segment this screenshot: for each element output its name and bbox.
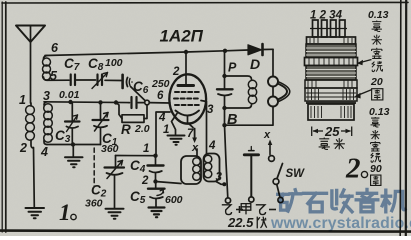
glyph haomi horizontal under 25 — [319, 138, 330, 150]
node C1 top — [98, 100, 102, 104]
svg-text:600: 600 — [165, 194, 183, 206]
wire C2 row to node 1 — [116, 155, 156, 157]
svg-text:P: P — [228, 61, 237, 75]
coilform band 3 — [305, 80, 357, 88]
label yi- terminal — [256, 205, 266, 215]
svg-text:B: B — [227, 112, 237, 128]
svg-text:1: 1 — [59, 200, 71, 225]
tube U1 envelope — [169, 74, 206, 123]
svg-text:3: 3 — [216, 172, 223, 184]
tube pin4 lead — [156, 112, 170, 156]
node tank drop — [223, 49, 227, 53]
wire phones bottom to B node — [225, 107, 274, 126]
svg-text:1 2 34: 1 2 34 — [310, 10, 343, 22]
svg-text:3: 3 — [207, 104, 214, 116]
svg-text:4: 4 — [40, 145, 48, 159]
capacitor grid cap — [132, 97, 137, 108]
ground under tube — [168, 136, 185, 145]
node 1 — [153, 154, 157, 158]
capacitor C7 — [71, 75, 75, 86]
coilform winding band 1 — [306, 44, 356, 58]
svg-text:250: 250 — [151, 78, 170, 90]
coil L3 coupling winding (6-5) — [43, 56, 51, 81]
label yi+ terminal — [222, 205, 232, 215]
coilform top flange — [307, 37, 356, 44]
svg-text:20: 20 — [370, 76, 383, 88]
capacitor C4 — [148, 156, 164, 182]
node tube anode drop — [184, 50, 188, 54]
dimension 25 — [312, 127, 352, 137]
svg-text:100: 100 — [105, 57, 123, 69]
wire tank main line — [224, 51, 226, 89]
glyph mi col1 — [372, 35, 382, 45]
svg-text:3: 3 — [43, 89, 50, 103]
wire to ground — [72, 145, 74, 157]
wire transformer sec bottom to battery line — [216, 182, 224, 185]
svg-text:360: 360 — [101, 143, 119, 155]
watermark shi — [303, 193, 326, 211]
wire coil5 to C7 — [47, 79, 69, 81]
terminal A — [249, 197, 254, 202]
arrow to winding2 — [355, 90, 373, 99]
glyph hao col1 — [372, 21, 382, 32]
svg-text:0.01: 0.01 — [59, 89, 80, 101]
svg-text:25: 25 — [324, 124, 340, 139]
svg-text:2: 2 — [19, 141, 27, 155]
svg-text:www.crystalradio.cn: www.crystalradio.cn — [270, 215, 411, 232]
label 22,5 v — [227, 215, 254, 230]
terminal B+ — [225, 198, 230, 203]
label 0,13 col2 — [369, 106, 390, 118]
svg-text:2: 2 — [141, 175, 149, 187]
coilform band 4 — [305, 88, 357, 101]
transformer T1 primary box — [181, 156, 201, 184]
svg-text:0.13: 0.13 — [369, 106, 390, 118]
fig label circles — [71, 171, 368, 219]
wire bottom return row — [47, 144, 101, 146]
capacitor C5 — [148, 182, 165, 207]
node transformer join — [222, 182, 226, 186]
battery A cell — [244, 147, 258, 198]
watermark shou — [332, 190, 352, 212]
resistor R — [116, 103, 147, 123]
tube pin3 lead — [201, 101, 207, 154]
svg-text:SW: SW — [286, 168, 306, 180]
coil L2 tuning winding (3-4) — [44, 102, 53, 145]
wire transformer primary top lead — [196, 149, 198, 156]
coilform ridge — [305, 58, 358, 66]
glyph quan col2 — [371, 175, 381, 185]
switch SW — [268, 140, 283, 198]
capacitor C1 variable — [93, 102, 109, 144]
glyph hao col2 — [371, 117, 380, 127]
svg-text:2: 2 — [345, 153, 361, 185]
wire diode to phones — [272, 49, 274, 76]
glyph fu volts — [257, 217, 266, 229]
svg-text:1: 1 — [163, 124, 169, 136]
node grid terminal — [145, 100, 150, 105]
wire top rail — [45, 50, 248, 56]
label jia terminal — [241, 204, 251, 215]
svg-text:R: R — [121, 122, 131, 137]
watermark yin — [356, 189, 378, 211]
tube pin1 lead — [172, 114, 178, 135]
svg-text:90: 90 — [370, 163, 382, 175]
svg-text:7: 7 — [187, 128, 194, 140]
glyph rao col2 — [371, 153, 381, 162]
arrow to winding1 — [357, 60, 372, 66]
glyph mi2 col1 — [372, 48, 382, 59]
wire grid node to tube pin6 — [149, 102, 170, 104]
svg-text:360: 360 — [85, 198, 103, 210]
watermark kuang — [278, 189, 405, 211]
wire gridcap to node — [138, 102, 145, 104]
capacitor C2 variable — [105, 156, 125, 209]
svg-text:1: 1 — [19, 93, 26, 107]
headphones — [268, 77, 290, 107]
ground under C2 — [106, 209, 124, 219]
svg-text:x: x — [191, 142, 199, 154]
wire antenna coil to ground — [33, 148, 36, 208]
wire C7 to C8 — [77, 79, 96, 81]
ground under C3 — [65, 157, 83, 167]
wire C6 to grid node — [131, 87, 146, 102]
node 2 — [153, 179, 157, 183]
node B — [222, 106, 226, 110]
svg-text:D: D — [250, 56, 260, 72]
node C3 top — [68, 100, 72, 104]
ground under C5 — [149, 208, 165, 218]
svg-text:5: 5 — [50, 69, 58, 83]
svg-text:22.5: 22.5 — [227, 215, 254, 230]
svg-text:2.0: 2.0 — [134, 123, 150, 135]
svg-text:2: 2 — [172, 66, 180, 78]
capacitor C3 (trimmer) — [65, 103, 80, 145]
svg-text:1: 1 — [143, 143, 149, 155]
watermark ji — [382, 190, 405, 212]
capacitor C6 — [123, 75, 133, 88]
ground under antenna coil — [26, 208, 45, 218]
tube filament — [176, 111, 200, 116]
coilform dark line — [306, 101, 356, 104]
label 0,13 col1 — [368, 9, 389, 21]
tube anode lead pin2 — [185, 52, 187, 84]
glyph mi col2 — [371, 130, 380, 139]
coilform bottom box — [308, 104, 354, 120]
node ground branch — [71, 142, 75, 146]
transformer T1 secondary box — [204, 154, 220, 182]
coil P winding — [225, 76, 257, 108]
diode D — [248, 44, 273, 55]
svg-text:4: 4 — [158, 112, 166, 124]
tube anode plate — [178, 84, 194, 87]
label 90 col2 — [370, 163, 382, 175]
antenna — [16, 26, 45, 104]
gang dashed link C1-C2 — [93, 148, 95, 186]
svg-text:0.13: 0.13 — [368, 9, 389, 21]
svg-text:6: 6 — [51, 41, 59, 55]
coilform winding band 2 — [306, 66, 356, 81]
svg-text:4: 4 — [208, 140, 216, 152]
svg-text:1А2П: 1А2П — [160, 27, 204, 46]
wire AVC row — [44, 101, 130, 104]
wire C8 to C6 — [105, 79, 121, 81]
wire B line down — [225, 125, 228, 198]
capacitor C8 (trimmer) — [92, 73, 108, 89]
glyph quan col1 — [372, 89, 383, 100]
capacitor tank cap — [217, 89, 233, 95]
coilform pins — [310, 20, 347, 37]
terminal B- — [278, 197, 283, 202]
glyph rao col1 — [372, 61, 383, 71]
svg-text:6: 6 — [157, 90, 164, 102]
label 20 col1 — [370, 76, 383, 88]
wire node2 to transformer — [156, 182, 182, 184]
tube pin7 lead with arrow — [188, 116, 198, 143]
tube grid rows — [174, 92, 200, 105]
coil L1 antenna winding (1-2) — [26, 103, 35, 148]
node R branch — [114, 100, 118, 104]
glyph mi2 col2 — [371, 141, 380, 151]
node P — [222, 74, 226, 78]
svg-text:x: x — [263, 129, 271, 141]
